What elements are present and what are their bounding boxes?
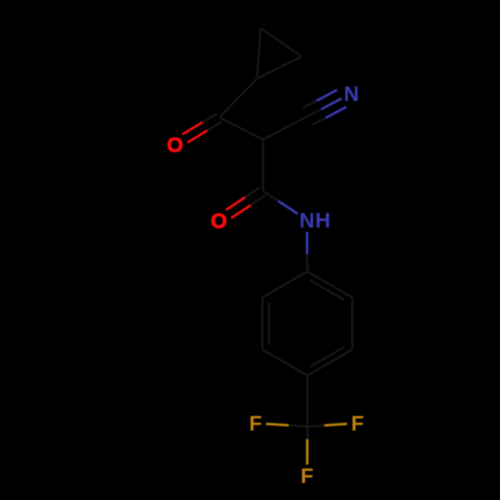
benzene ring bond C2'-C3' — [351, 298, 354, 350]
bond C3-Ca (ketone C to cyclopropyl) — [220, 79, 258, 118]
bond Namide-C1' blue half — [306, 232, 309, 254]
cyclopropyl ring bond Cg-Ca — [257, 57, 302, 79]
bond Ccf3-Fright gold half — [325, 424, 347, 426]
bond Ccf3-Fleft dark half — [288, 425, 307, 426]
benzene inner double bond C5'=C6' — [268, 303, 271, 345]
svg-text:F: F — [351, 413, 364, 436]
ketone double bond C3=O1 dark halves — [202, 113, 217, 122]
benzene ring bond C4'-C5' — [262, 350, 307, 376]
cyclopropyl ring bond Ca-Cb — [257, 28, 261, 79]
bond C1-Namide blue half — [278, 201, 297, 214]
bond C3-C2 — [220, 118, 264, 140]
bond Ccf3-Fbottom gold half — [306, 440, 309, 465]
svg-text:H: H — [315, 209, 330, 232]
benzene ring bond C6'-C1' — [262, 272, 307, 298]
nitrile triple bond dark halves — [307, 109, 321, 116]
bond Ccf3-Fleft gold half — [266, 424, 288, 425]
svg-text:F: F — [301, 465, 314, 488]
svg-text:O: O — [211, 210, 227, 233]
cyclopropyl ring bond Cb-Cg — [261, 28, 302, 57]
bond C2-C1 — [262, 140, 265, 192]
benzene inner double bond C1'=C2' — [310, 280, 345, 300]
bond C1-Namide dark half — [263, 191, 278, 201]
svg-text:N: N — [344, 83, 359, 106]
bond Ccf3-Fbottom dark half — [306, 427, 309, 440]
benzene ring bond C5'-C6' — [261, 298, 264, 350]
benzene ring bond C1'-C2' — [307, 272, 352, 298]
benzene ring bond C3'-C4' — [307, 350, 352, 376]
ketone double bond C3=O1 red halves — [182, 122, 202, 134]
bond C2-Csp (to nitrile carbon) — [263, 117, 307, 140]
svg-text:F: F — [249, 413, 262, 436]
svg-text:O: O — [167, 134, 183, 157]
benzene inner double bond C3'=C4' — [310, 347, 345, 367]
svg-text:N: N — [299, 209, 314, 232]
bond Ccf3-Fright dark half — [307, 425, 324, 426]
bond C4'-Ccf3 — [306, 376, 309, 427]
amide double bond C1=O2 dark halves — [245, 187, 260, 197]
nitrile triple bond blue halves — [321, 98, 341, 109]
amide double bond C1=O2 red halves — [226, 197, 245, 210]
bond Namide-C1' dark half — [306, 254, 309, 272]
